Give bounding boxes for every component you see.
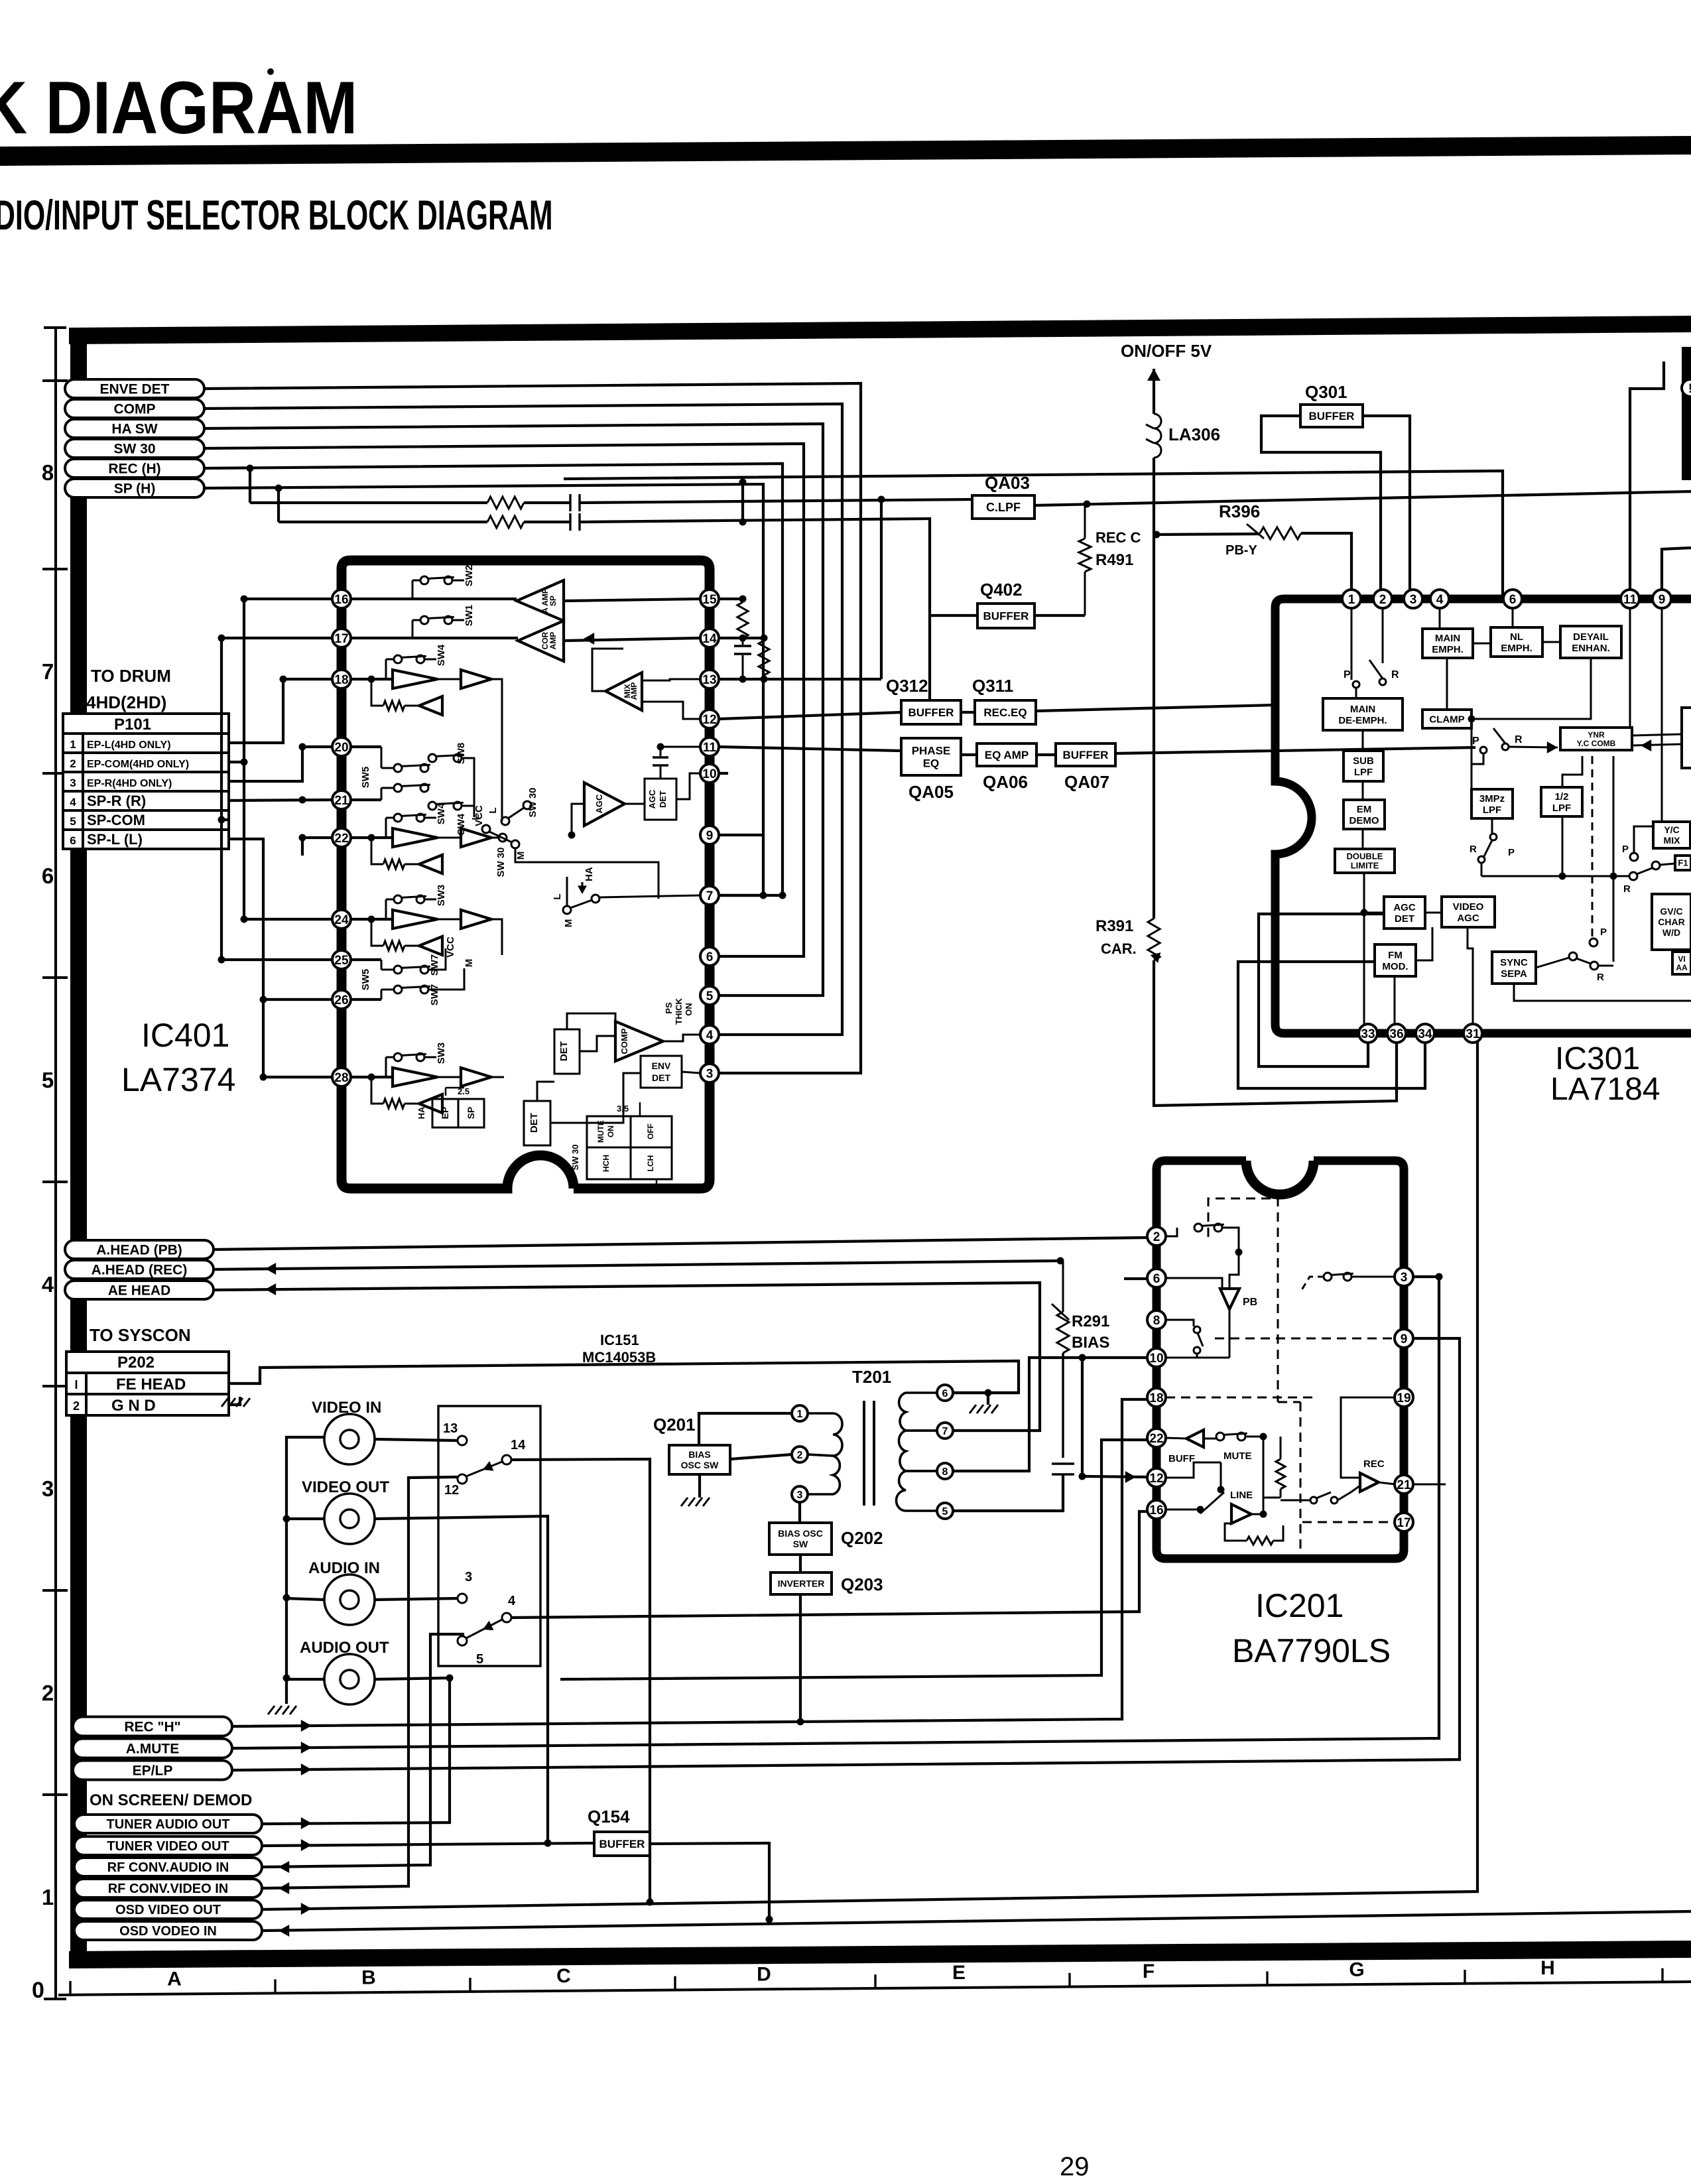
wire ENVE DET to IC401 pin3 bbox=[204, 383, 861, 1073]
svg-text:DET: DET bbox=[558, 1041, 570, 1061]
svg-text:BUFFER: BUFFER bbox=[1309, 410, 1355, 422]
wire pin22 stub left bbox=[299, 834, 333, 856]
svg-text:LIMITE: LIMITE bbox=[1351, 861, 1379, 871]
svg-text:MC14053B: MC14053B bbox=[582, 1349, 656, 1366]
title text BLOCK DIAGRAM (left-clipped) bbox=[0, 67, 357, 149]
svg-text:29: 29 bbox=[1060, 2152, 1090, 2181]
svg-text:PHASE: PHASE bbox=[912, 745, 951, 757]
svg-text:BIAS OSC: BIAS OSC bbox=[778, 1528, 823, 1539]
wire jack gnd bus bbox=[283, 1437, 325, 1704]
IC201 mid resistor bbox=[1263, 1437, 1285, 1498]
IC201 dashes mid bbox=[1278, 1402, 1300, 1554]
svg-text:P: P bbox=[1600, 927, 1607, 938]
wire P101-2 EP-COM common bbox=[229, 596, 332, 923]
IC201 rec switch bbox=[1281, 1486, 1360, 1504]
svg-text:LPF: LPF bbox=[1483, 804, 1501, 816]
svg-text:18: 18 bbox=[1149, 1391, 1163, 1405]
block MAIN EMPH bbox=[1422, 629, 1473, 658]
svg-text:SW8: SW8 bbox=[456, 743, 467, 765]
IC401 ENV DET box bbox=[641, 1056, 700, 1088]
block EQ AMP QA06 bbox=[977, 743, 1036, 766]
svg-text:CLAMP: CLAMP bbox=[1429, 714, 1464, 725]
svg-text:2: 2 bbox=[1153, 1230, 1160, 1244]
wire Q201 to T201 pin1 bbox=[699, 1413, 792, 1445]
svg-text:SW 30: SW 30 bbox=[570, 1144, 580, 1170]
svg-text:!: ! bbox=[1688, 382, 1691, 396]
svg-text:DOUBLE: DOUBLE bbox=[1347, 852, 1383, 862]
wire audio out to IC201 pin22 bbox=[560, 1440, 1147, 1679]
wire HA SW to IC401 pin5 bbox=[204, 424, 823, 996]
label Q203 bbox=[841, 1574, 883, 1594]
wire A.HEAD (REC) to R291 node bbox=[214, 1257, 1064, 1275]
label Q301 bbox=[1305, 382, 1347, 402]
wire P101-1 EP-L to pin18 bbox=[229, 676, 332, 743]
wire Q402 out bbox=[1034, 614, 1085, 617]
svg-text:SP: SP bbox=[466, 1107, 476, 1120]
label R391 bbox=[1096, 917, 1133, 935]
block YNR YC COMB bbox=[1560, 728, 1632, 750]
block BUFFER Q301 bbox=[1300, 405, 1363, 427]
IC401 mix amp bbox=[592, 649, 700, 719]
svg-text:5: 5 bbox=[942, 1506, 948, 1517]
svg-text:A.HEAD (PB): A.HEAD (PB) bbox=[96, 1243, 182, 1258]
svg-text:BUFFER: BUFFER bbox=[983, 610, 1029, 623]
wire pin14 line bbox=[719, 635, 768, 642]
wire QA07 out to YNR bbox=[1115, 747, 1475, 753]
wire Q402 in bbox=[930, 614, 977, 617]
diagram frame top border bbox=[69, 316, 1691, 344]
svg-text:8: 8 bbox=[1153, 1314, 1160, 1328]
wire IC201 pin10-pin12 link bbox=[1079, 1354, 1148, 1484]
svg-text:6: 6 bbox=[1153, 1272, 1160, 1286]
svg-text:4: 4 bbox=[70, 796, 76, 808]
wire pin16 line bbox=[351, 599, 700, 601]
bottom grid ruler bbox=[58, 1968, 1691, 1996]
svg-text:6: 6 bbox=[70, 834, 76, 847]
svg-text:12: 12 bbox=[702, 713, 716, 727]
svg-text:SW5: SW5 bbox=[360, 767, 371, 789]
block FM MOD bbox=[1375, 944, 1416, 976]
svg-text:R: R bbox=[1391, 669, 1399, 680]
svg-text:MOD.: MOD. bbox=[1382, 961, 1408, 972]
svg-text:HA SW: HA SW bbox=[111, 422, 157, 437]
resistor2 pin14-13 bbox=[759, 641, 769, 683]
IC151 pin12 bbox=[444, 1474, 467, 1498]
wire SP(H) tap to buffer line bbox=[275, 485, 282, 523]
IC201 pin8 switch bbox=[1166, 1309, 1229, 1358]
svg-text:ON: ON bbox=[606, 1125, 615, 1137]
label Q202 bbox=[841, 1528, 883, 1548]
svg-text:F1: F1 bbox=[1678, 858, 1688, 868]
resistor R291 bbox=[1052, 1261, 1069, 1353]
svg-text:21: 21 bbox=[334, 794, 349, 808]
T201 core bbox=[864, 1401, 874, 1506]
svg-text:Y.C COMB: Y.C COMB bbox=[1577, 739, 1616, 748]
svg-text:M: M bbox=[563, 919, 574, 928]
svg-text:21: 21 bbox=[1397, 1478, 1411, 1492]
svg-text:EQ AMP: EQ AMP bbox=[985, 749, 1029, 761]
svg-text:13: 13 bbox=[702, 673, 716, 687]
label PB-Y bbox=[1225, 543, 1257, 558]
IC201 PB amp bbox=[1166, 1252, 1257, 1309]
svg-text:3: 3 bbox=[797, 1490, 803, 1501]
wire sw4 to IC201 pin16 bbox=[511, 1511, 1148, 1618]
svg-text:DEMO: DEMO bbox=[1349, 815, 1379, 826]
svg-text:2: 2 bbox=[42, 1681, 54, 1705]
wire ynr P drop bbox=[1590, 756, 1607, 946]
wire Q301 left path bbox=[1261, 416, 1381, 590]
IC151 lever 5-4 bbox=[466, 1620, 502, 1638]
svg-text:Q301: Q301 bbox=[1305, 382, 1347, 402]
block CLAMP bbox=[1422, 710, 1472, 728]
switch P/R de-emph bbox=[1344, 608, 1399, 698]
wire pin17 line bbox=[351, 633, 700, 645]
IC201 rec amp bbox=[1360, 1458, 1395, 1492]
label R491 bbox=[1096, 551, 1133, 569]
svg-text:BIAS: BIAS bbox=[1072, 1334, 1109, 1352]
label T201 bbox=[852, 1367, 891, 1387]
svg-text:TO SYSCON: TO SYSCON bbox=[90, 1325, 191, 1345]
svg-text:P: P bbox=[1508, 847, 1515, 858]
resistor R396 bbox=[1153, 524, 1302, 539]
svg-text:F: F bbox=[1143, 1960, 1155, 1982]
label IC401 bbox=[141, 1017, 229, 1054]
wire pin11 to ynr bbox=[1629, 608, 1631, 728]
IC201 line fb resistor bbox=[1225, 1523, 1283, 1545]
wire pin33 to agc det bbox=[1259, 914, 1384, 1066]
wire fm mod to pin36 bbox=[1394, 976, 1396, 1025]
svg-text:REC (H): REC (H) bbox=[108, 462, 160, 477]
wire det links bbox=[537, 1013, 641, 1123]
svg-text:EP-R(4HD ONLY): EP-R(4HD ONLY) bbox=[87, 778, 172, 789]
wire COMP to IC401 pin4 bbox=[204, 404, 842, 1035]
label Q402 bbox=[980, 580, 1023, 600]
svg-text:LA7374: LA7374 bbox=[121, 1061, 235, 1098]
wire pin11 line to phase eq bbox=[719, 747, 901, 751]
svg-text:1: 1 bbox=[663, 1183, 668, 1192]
resistor on C.LPF line bbox=[487, 497, 524, 509]
right edge cut-off block bbox=[1682, 347, 1691, 480]
svg-text:THICK: THICK bbox=[674, 998, 684, 1025]
ground P202 bbox=[221, 1398, 250, 1407]
capacitor on buffer line bbox=[570, 513, 580, 531]
svg-text:BUFFER: BUFFER bbox=[1063, 749, 1109, 761]
svg-text:G: G bbox=[1349, 1959, 1364, 1980]
svg-text:MUTE: MUTE bbox=[1223, 1450, 1252, 1462]
wire 3mp2 down-switch bbox=[1470, 818, 1515, 876]
wire pin34 riser bbox=[1238, 962, 1425, 1088]
svg-text:EQ: EQ bbox=[923, 757, 940, 770]
IC401 switch cluster SW5/SW7 low bbox=[351, 936, 475, 1005]
switch SW1 bbox=[412, 605, 475, 638]
net pill ENVE DET bbox=[65, 379, 204, 398]
svg-text:AGC: AGC bbox=[1393, 902, 1416, 913]
block DETAIL ENHAN bbox=[1560, 626, 1621, 658]
svg-text:7: 7 bbox=[706, 889, 714, 903]
block SYNC SEPA bbox=[1492, 952, 1536, 984]
wire audio out line bbox=[375, 1675, 454, 1682]
wire T201 pin6 to gnd and FE bbox=[953, 1389, 1019, 1405]
block 3MP2 LPF bbox=[1472, 789, 1513, 818]
wire clamp right node bbox=[1468, 716, 1475, 804]
svg-text:11: 11 bbox=[1623, 593, 1637, 607]
block C.LPF QA03 bbox=[972, 495, 1034, 519]
svg-text:10: 10 bbox=[702, 767, 716, 781]
IC401 EP amp pin18 bbox=[351, 644, 502, 817]
svg-text:ON/OFF 5V: ON/OFF 5V bbox=[1121, 341, 1212, 361]
label VIDEO IN bbox=[312, 1399, 381, 1417]
wire Q154 out bbox=[544, 1840, 773, 1923]
label Q312 bbox=[886, 676, 928, 696]
svg-text:PS: PS bbox=[664, 1002, 674, 1014]
wire video in to sw13 bbox=[375, 1439, 458, 1441]
IC201 mute switch bbox=[1216, 1433, 1267, 1498]
svg-text:22: 22 bbox=[1149, 1432, 1163, 1446]
label Q311 bbox=[972, 676, 1013, 696]
svg-text:8: 8 bbox=[42, 460, 54, 485]
IC401 DET box A bbox=[524, 1101, 550, 1145]
svg-text:7: 7 bbox=[942, 1426, 948, 1437]
svg-text:SW5: SW5 bbox=[360, 969, 371, 991]
wire video out to Q154 line bbox=[375, 1516, 552, 1847]
IC151 pin4 bbox=[502, 1594, 516, 1622]
svg-text:14: 14 bbox=[511, 1438, 526, 1452]
svg-text:AGC: AGC bbox=[647, 789, 657, 809]
block MAIN DE-EMPH bbox=[1323, 698, 1403, 730]
inductor LA306 bbox=[1146, 414, 1161, 458]
svg-text:TUNER VIDEO OUT: TUNER VIDEO OUT bbox=[107, 1839, 229, 1854]
block FT (clipped) bbox=[1675, 856, 1691, 870]
subtitle AUDIO/INPUT SELECTOR BLOCK DIAGRAM (left-clipped) bbox=[0, 192, 553, 239]
svg-text:Q402: Q402 bbox=[980, 580, 1023, 600]
svg-text:Q203: Q203 bbox=[841, 1574, 883, 1594]
wire SP (H) to IC401 pin9 bbox=[204, 484, 767, 899]
net pill SP (H) bbox=[65, 479, 204, 497]
svg-text:P202: P202 bbox=[117, 1354, 155, 1372]
wire REC-H to IC201 pin18 bbox=[232, 1399, 1148, 1732]
label Q154 bbox=[588, 1807, 630, 1827]
switch P/R ycmix bbox=[1622, 826, 1653, 861]
svg-text:BA7790LS: BA7790LS bbox=[1232, 1632, 1391, 1669]
svg-text:5: 5 bbox=[70, 815, 76, 828]
IC201 line amp bbox=[1166, 1462, 1267, 1523]
IC401 mute mode table bbox=[570, 1102, 672, 1192]
wire TUNER AUDIO OUT to audio out jack bbox=[262, 1678, 450, 1829]
svg-text:16: 16 bbox=[1149, 1504, 1163, 1517]
wire RF CONV.VIDEO IN from sw12 bbox=[262, 1477, 458, 1894]
title rule bar bbox=[0, 136, 1691, 166]
svg-text:10: 10 bbox=[1149, 1352, 1163, 1366]
wire detail enhan down bbox=[1472, 658, 1591, 719]
svg-text:A: A bbox=[167, 1968, 182, 1990]
IC201 pin3 switch bbox=[1300, 1273, 1395, 1292]
svg-text:R396: R396 bbox=[1219, 501, 1260, 521]
IC201 pin21 stub bbox=[1413, 1484, 1446, 1486]
block INVERTER Q203 bbox=[771, 1573, 832, 1594]
wire A.MUTE to IC201 pin3 node bbox=[232, 1273, 1443, 1754]
svg-text:4: 4 bbox=[706, 1029, 714, 1043]
svg-text:4: 4 bbox=[42, 1272, 54, 1297]
IC201 dashes pin18 bbox=[1166, 1397, 1316, 1399]
IC IC301 LA7184 outline bbox=[1275, 599, 1691, 1033]
svg-text:SEPA: SEPA bbox=[1501, 968, 1527, 980]
capacitor on C.LPF line bbox=[570, 494, 580, 511]
label Q201 bbox=[653, 1415, 696, 1435]
label ON SCREEN/DEMOD bbox=[90, 1791, 252, 1809]
wire ynr to halflpf bbox=[1562, 756, 1582, 787]
svg-text:L: L bbox=[487, 807, 499, 813]
label AUDIO IN bbox=[308, 1559, 380, 1577]
svg-text:NL: NL bbox=[1510, 631, 1523, 643]
svg-text:MUTE: MUTE bbox=[596, 1120, 605, 1143]
svg-text:R491: R491 bbox=[1096, 551, 1133, 569]
svg-text:18: 18 bbox=[334, 673, 348, 687]
svg-text:SW2: SW2 bbox=[464, 565, 475, 587]
wire P202 GND bbox=[229, 1397, 240, 1405]
svg-text:INVERTER: INVERTER bbox=[778, 1578, 825, 1589]
svg-text:1: 1 bbox=[70, 738, 76, 751]
label VIDEO OUT bbox=[302, 1478, 389, 1496]
wire ynr right taps bbox=[1632, 734, 1682, 751]
jack AUDIO OUT bbox=[324, 1654, 375, 1704]
svg-text:P101: P101 bbox=[114, 716, 151, 734]
wire Q202-Q203 bbox=[799, 1555, 802, 1573]
resistor R491 bbox=[1079, 504, 1091, 615]
IC IC201 BA7790LS outline bbox=[1157, 1161, 1404, 1559]
net pill TUNER AUDIO OUT bbox=[74, 1815, 262, 1833]
svg-text:MAIN: MAIN bbox=[1435, 633, 1460, 644]
label BIAS bbox=[1072, 1334, 1109, 1352]
svg-text:6: 6 bbox=[706, 950, 714, 964]
block FM DEMOD bbox=[1344, 800, 1385, 829]
capacitor bias bbox=[1052, 1464, 1074, 1474]
label IC151 bbox=[600, 1332, 639, 1348]
wire main emph to clamp bbox=[1446, 658, 1448, 710]
ground Q201 bbox=[681, 1498, 710, 1506]
wire emph chain bbox=[1473, 642, 1560, 643]
svg-text:QA05: QA05 bbox=[908, 782, 954, 802]
wire pin1 to de-emph bbox=[1351, 608, 1353, 680]
net pill AE HEAD bbox=[65, 1281, 214, 1299]
wire phaseeq-eqamp bbox=[961, 753, 977, 756]
svg-text:C: C bbox=[556, 1965, 571, 1987]
svg-text:R: R bbox=[1470, 844, 1477, 855]
wire P101-3 EP-R to pin20 bbox=[229, 743, 332, 782]
net pill A.HEAD (REC) bbox=[65, 1260, 214, 1279]
bottom grid letters A-H bbox=[167, 1957, 1555, 1990]
svg-text:LCH: LCH bbox=[646, 1155, 655, 1172]
svg-text:DET: DET bbox=[529, 1113, 540, 1133]
svg-text:IC401: IC401 bbox=[141, 1017, 229, 1054]
net pill RF CONV.VIDEO IN bbox=[74, 1879, 262, 1897]
svg-text:SP-COM: SP-COM bbox=[87, 812, 145, 828]
diagram frame bottom border bbox=[69, 1941, 1691, 1968]
connector P202 bbox=[66, 1352, 229, 1415]
block HALF LPF bbox=[1541, 787, 1582, 816]
wire Q312-Q311 bbox=[961, 711, 975, 714]
svg-text:E: E bbox=[952, 1962, 966, 1984]
svg-text:LA306: LA306 bbox=[1168, 424, 1220, 444]
block BUFFER Q154 bbox=[594, 1832, 650, 1856]
IC151 lever 12-14 bbox=[466, 1461, 502, 1476]
svg-text:3: 3 bbox=[1401, 1271, 1408, 1285]
net pill HA SW bbox=[65, 419, 204, 438]
wire SW 30 to IC401 pin6 bbox=[204, 444, 804, 956]
svg-text:DEYAIL: DEYAIL bbox=[1573, 631, 1609, 643]
svg-text:AE HEAD: AE HEAD bbox=[108, 1283, 171, 1299]
label QA07 bbox=[1064, 772, 1109, 792]
switch SW2 bbox=[412, 565, 475, 599]
svg-text:A.HEAD (REC): A.HEAD (REC) bbox=[92, 1263, 188, 1278]
svg-text:28: 28 bbox=[334, 1071, 348, 1085]
net pill A.HEAD (PB) bbox=[65, 1240, 214, 1259]
wire eqamp-buffer bbox=[1036, 753, 1056, 756]
svg-text:3: 3 bbox=[706, 1067, 714, 1081]
wire T201 pin3 down bbox=[798, 1502, 801, 1523]
wire R391 to IC301 pin36 bbox=[1154, 960, 1397, 1106]
net pill SW 30 bbox=[65, 439, 204, 458]
wire P101-4 SP-R to pin21 bbox=[229, 797, 332, 804]
svg-text:REC: REC bbox=[1363, 1458, 1385, 1470]
svg-text:SW4: SW4 bbox=[436, 803, 447, 824]
IC401 SW30 switch upper bbox=[487, 787, 538, 825]
svg-text:4: 4 bbox=[1436, 593, 1444, 607]
wire 5V rail down bbox=[1153, 458, 1155, 919]
diagram frame left border bbox=[70, 328, 87, 1966]
wire P101-5 SP-COM common bbox=[218, 635, 333, 964]
svg-text:SW 30: SW 30 bbox=[113, 442, 155, 457]
block NL EMPH bbox=[1491, 627, 1542, 657]
svg-text:RF CONV.AUDIO IN: RF CONV.AUDIO IN bbox=[107, 1860, 229, 1875]
IC201 pins bbox=[1147, 1227, 1413, 1531]
IC151 pin5 bbox=[458, 1636, 483, 1667]
svg-text:YNR: YNR bbox=[1588, 730, 1605, 739]
svg-text:2: 2 bbox=[70, 757, 76, 770]
wire Q201 to T201 pin2 bbox=[730, 1454, 792, 1459]
svg-text:7: 7 bbox=[42, 659, 54, 684]
switch P/R clamp bbox=[1472, 728, 1523, 764]
svg-text:COMP: COMP bbox=[619, 1028, 629, 1054]
wire dbl-limiter to pin33 bbox=[1361, 873, 1385, 1025]
svg-text:IC201: IC201 bbox=[1255, 1587, 1344, 1624]
svg-text:OSD VIDEO OUT: OSD VIDEO OUT bbox=[115, 1903, 221, 1917]
svg-text:9: 9 bbox=[706, 829, 714, 843]
svg-text:T201: T201 bbox=[852, 1367, 891, 1387]
block BIAS OSC SW Q202 bbox=[769, 1523, 832, 1555]
svg-text:SP (H): SP (H) bbox=[114, 482, 156, 497]
jack VIDEO OUT bbox=[324, 1494, 375, 1544]
svg-text:SP: SP bbox=[548, 596, 558, 606]
svg-text:MIX: MIX bbox=[1664, 835, 1681, 846]
svg-text:AA: AA bbox=[1676, 963, 1688, 972]
svg-text:SW7: SW7 bbox=[429, 984, 440, 1006]
right edge box fragment bbox=[1682, 708, 1691, 768]
wire pin12 line to buffer Q312 bbox=[719, 712, 901, 719]
T201 secondary coil bbox=[897, 1393, 937, 1511]
wire R396 to IC301 pin1 bbox=[1301, 533, 1351, 590]
svg-text:CHAR: CHAR bbox=[1658, 917, 1684, 927]
svg-text:8: 8 bbox=[942, 1466, 948, 1478]
wire agcdet-videoagc bbox=[1425, 912, 1442, 914]
net pill REC (H) bbox=[65, 459, 204, 478]
svg-text:ENHAN.: ENHAN. bbox=[1572, 643, 1610, 654]
svg-text:22: 22 bbox=[334, 832, 348, 846]
svg-text:15: 15 bbox=[702, 593, 717, 607]
svg-text:36: 36 bbox=[1389, 1027, 1403, 1041]
wire R select line bbox=[1481, 873, 1629, 880]
svg-text:MAIN: MAIN bbox=[1350, 704, 1375, 715]
svg-text:20: 20 bbox=[334, 741, 348, 755]
